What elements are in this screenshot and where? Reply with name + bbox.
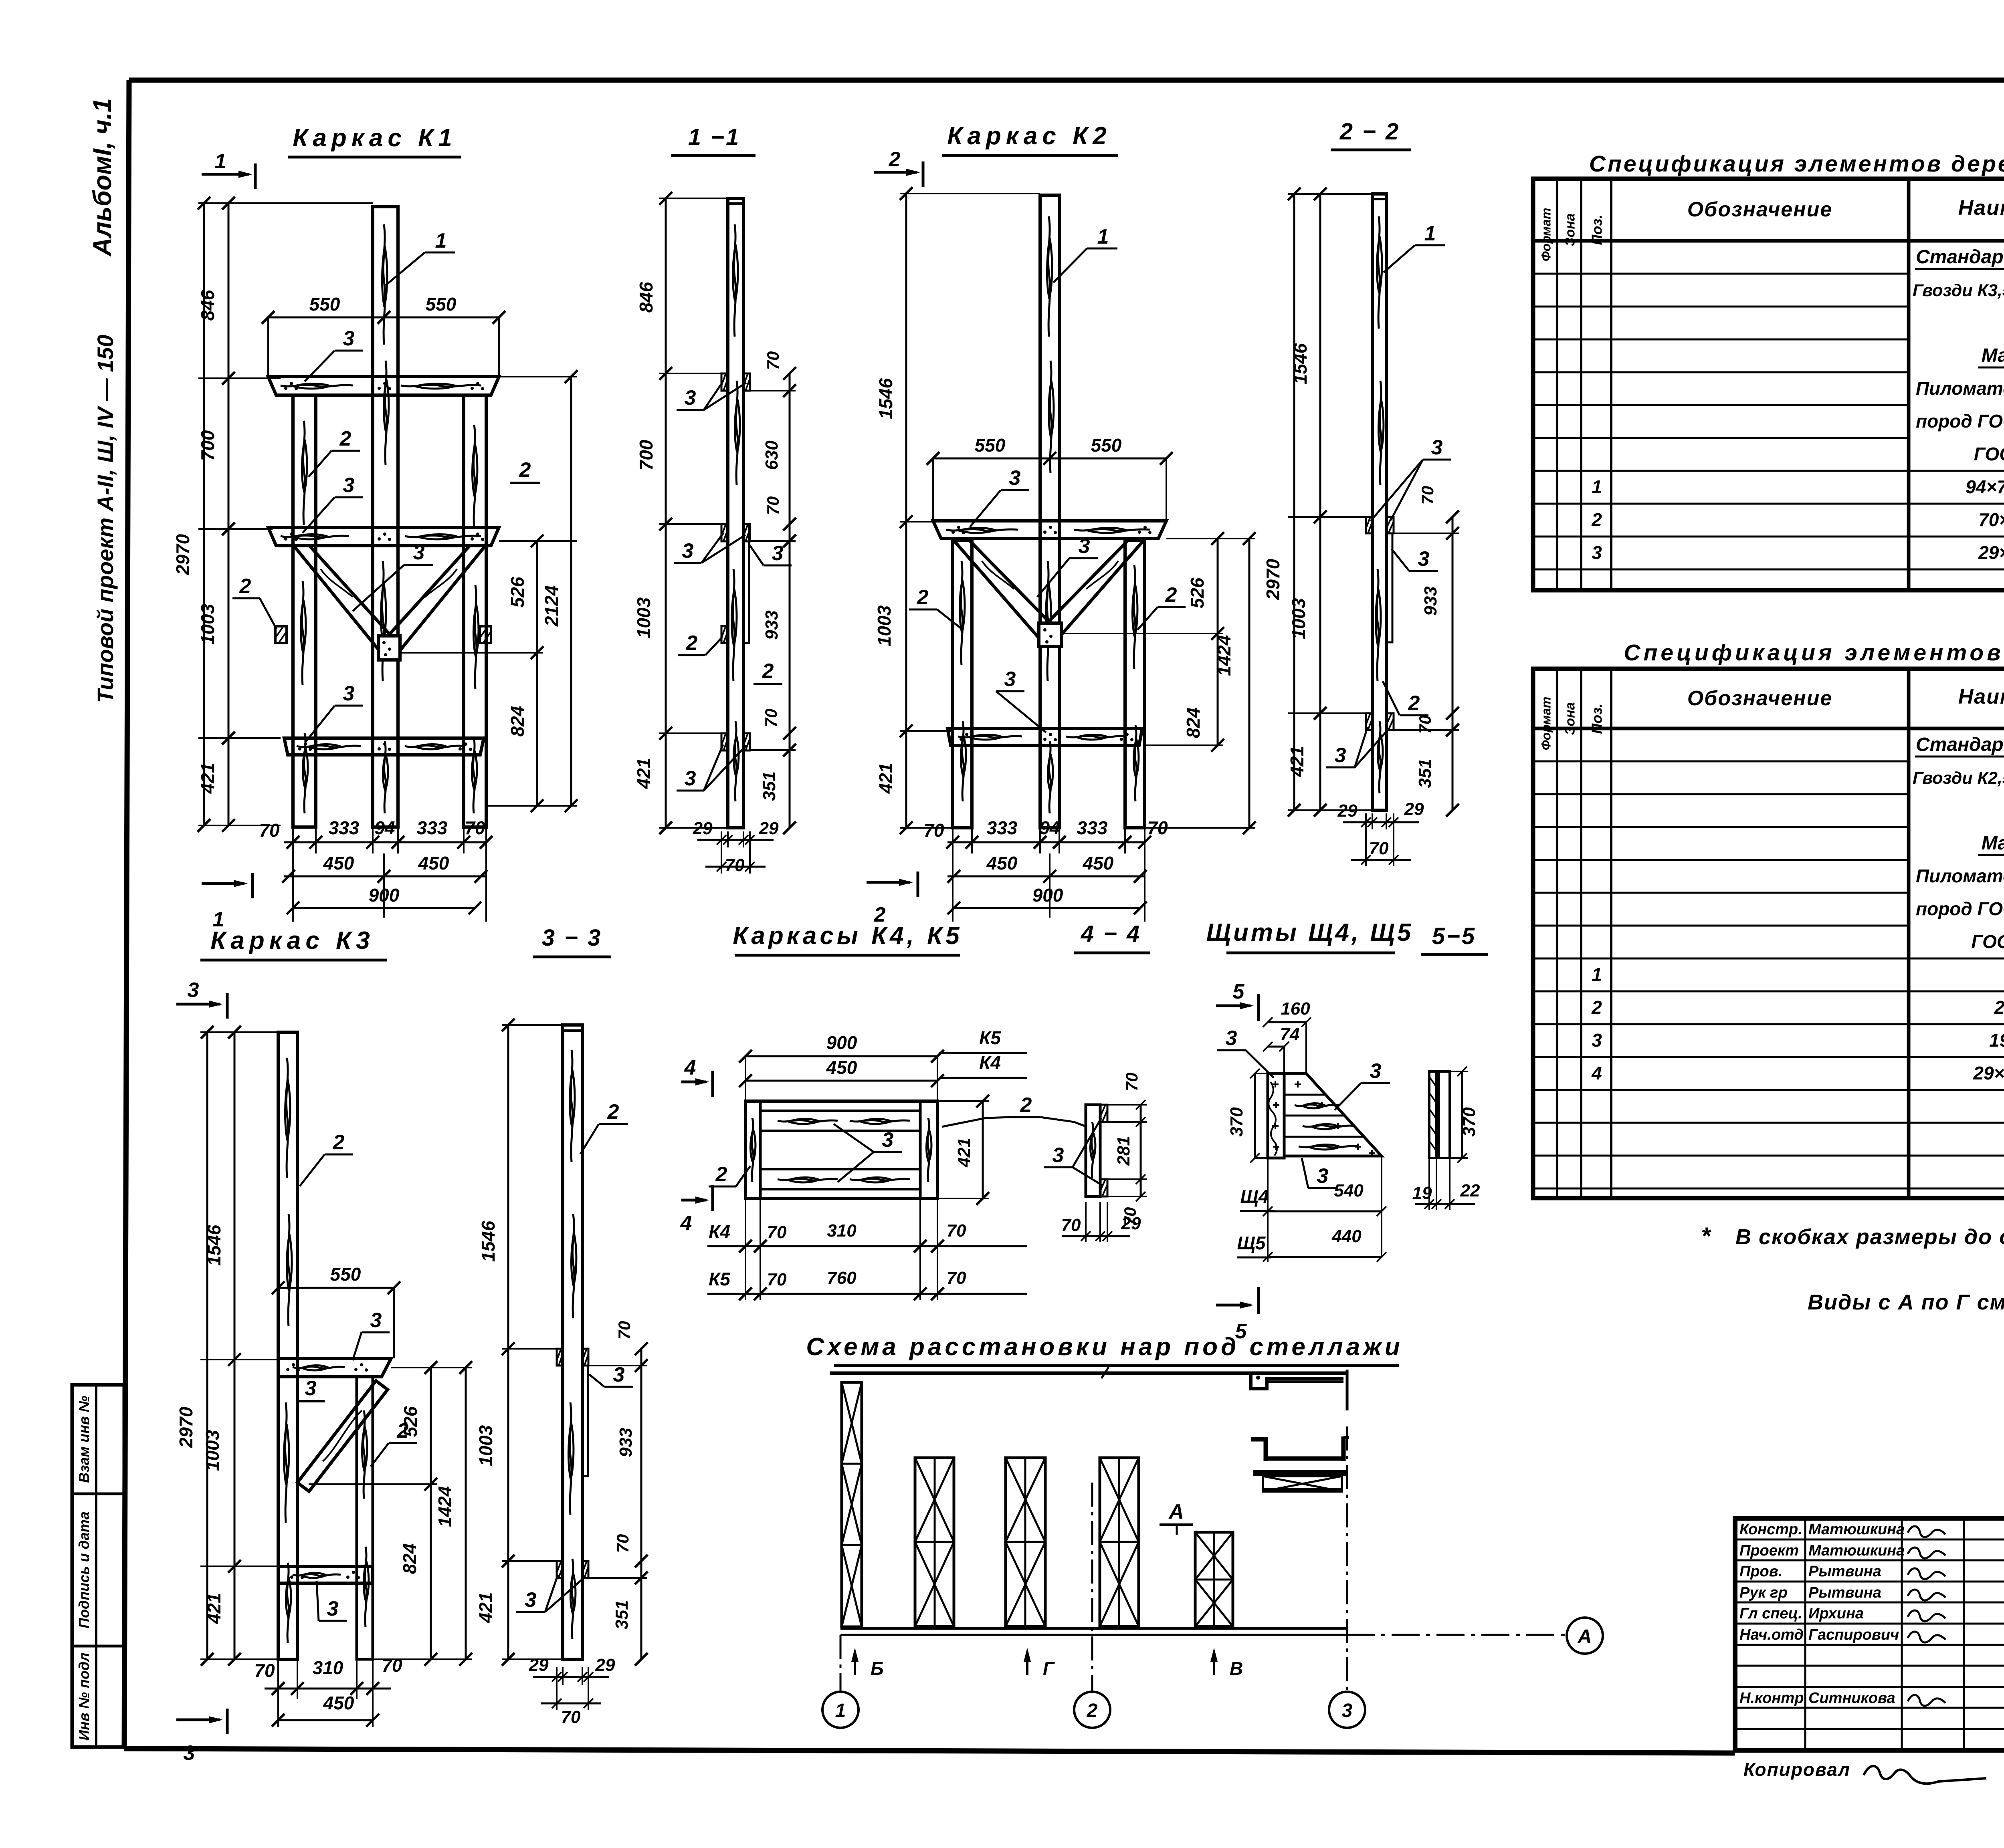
K3 leader 3 (bottom bar) xyxy=(317,1581,347,1621)
K2 bottom dims row3 900 xyxy=(947,885,1147,914)
K3 right rail (2) xyxy=(357,1377,373,1659)
svg-text:540: 540 xyxy=(1334,1181,1364,1200)
schema axis A line xyxy=(1347,1618,1603,1654)
svg-text:3: 3 xyxy=(685,767,696,790)
K1 bottom crossbar (3) xyxy=(284,738,484,755)
K1 dim line segments 846/700/1003/421 xyxy=(197,197,235,832)
svg-text:70: 70 xyxy=(947,1221,966,1241)
schema right nary bar xyxy=(1253,1470,1346,1476)
svg-text:3: 3 xyxy=(1004,668,1016,691)
K3 right dim 526/824 xyxy=(399,1361,437,1666)
K2 V-brace right board (3) xyxy=(1039,540,1144,644)
svg-text:Зона: Зона xyxy=(1563,702,1578,735)
K2 section marker top xyxy=(874,148,923,187)
svg-text:421: 421 xyxy=(633,758,654,789)
svg-text:94: 94 xyxy=(374,817,395,838)
table frame xyxy=(1533,179,2004,590)
svg-text:900: 900 xyxy=(826,1032,857,1053)
svg-text:760: 760 xyxy=(827,1268,857,1288)
svg-text:3: 3 xyxy=(1226,1027,1237,1050)
K3 bottom dims row1 70/310/70 xyxy=(254,1655,402,1727)
schema right wall axis-3 top xyxy=(1346,1370,1349,1410)
1-1 leader 3 bottom xyxy=(677,744,746,791)
svg-text:1: 1 xyxy=(1424,222,1436,245)
Shch leader 3 bottom xyxy=(1302,1158,1337,1188)
svg-text:333: 333 xyxy=(417,817,448,838)
K1 right extension lines xyxy=(401,377,577,806)
svg-text:Формат: Формат xyxy=(1539,208,1554,262)
4-4 bottom dims 70 29 xyxy=(1061,1202,1141,1242)
table content xyxy=(1591,246,2004,563)
K1 V-brace center block xyxy=(378,636,400,660)
kopiroval xyxy=(1743,1759,1986,1783)
svg-text:351: 351 xyxy=(1415,759,1435,788)
svg-text:Спецификация элементов деревя: Спецификация элементов деревянных щитов xyxy=(1624,640,2004,666)
Shch dim 74 xyxy=(1263,1025,1299,1073)
K3 post (2) xyxy=(278,1032,297,1659)
K4K5 left post xyxy=(745,1101,760,1198)
K2 leader label 3 (top bar) xyxy=(970,466,1029,527)
4-4 cleat bottom xyxy=(1100,1179,1107,1196)
K1 V-brace right board (3) xyxy=(380,546,485,656)
title: Karkas K3 xyxy=(200,927,387,960)
svg-text:Каркас К3: Каркас К3 xyxy=(210,927,374,954)
K3 leader 2 (post) xyxy=(300,1131,353,1186)
svg-text:2: 2 xyxy=(1408,692,1420,715)
K2 V-brace left board (3) xyxy=(954,540,1059,644)
svg-text:1546: 1546 xyxy=(1290,343,1311,384)
title: 2-2 xyxy=(1331,119,1411,150)
svg-text:630: 630 xyxy=(762,440,782,470)
K2 leader label 2 (right post) xyxy=(1137,583,1186,630)
svg-text:1003: 1003 xyxy=(202,1430,223,1471)
svg-text:70: 70 xyxy=(1369,839,1389,858)
svg-text:824: 824 xyxy=(399,1543,420,1574)
svg-text:К5: К5 xyxy=(979,1027,1001,1048)
svg-text:3: 3 xyxy=(188,978,199,1002)
Shch leader 3 right xyxy=(1335,1059,1390,1110)
svg-text:3: 3 xyxy=(1317,1164,1329,1188)
K3 leader 3 (top bar) xyxy=(353,1309,390,1360)
svg-text:2124: 2124 xyxy=(541,585,562,627)
K1 right dim 526/824 xyxy=(507,535,543,812)
svg-text:2970: 2970 xyxy=(176,1406,196,1448)
svg-text:70: 70 xyxy=(764,351,782,370)
schema arrow G xyxy=(1024,1648,1055,1679)
svg-text:700: 700 xyxy=(197,430,218,461)
svg-text:3 − 3: 3 − 3 xyxy=(542,925,602,951)
K3 section marker top xyxy=(176,978,227,1019)
K2 dim line 1546/1003/421 xyxy=(874,187,1040,834)
svg-text:Пров.: Пров. xyxy=(1739,1563,1782,1580)
schema right nary X-rect xyxy=(1263,1476,1342,1491)
svg-text:Матюшкина: Матюшкина xyxy=(1808,1521,1905,1538)
svg-text:70: 70 xyxy=(764,496,782,515)
table headers xyxy=(1539,189,2004,261)
svg-text:К5: К5 xyxy=(709,1269,731,1289)
svg-text:К4: К4 xyxy=(979,1052,1001,1073)
K2 bottom crossbar (3) xyxy=(947,728,1142,745)
svg-text:3: 3 xyxy=(772,542,784,565)
K2 V-brace center block xyxy=(1039,623,1061,646)
5-5 strips xyxy=(1429,1071,1450,1158)
svg-text:2: 2 xyxy=(686,631,698,655)
svg-text:421: 421 xyxy=(954,1138,974,1167)
3-3 dims 1546/1003/421 xyxy=(475,1019,563,1666)
K4K5 frame outline xyxy=(745,1101,937,1198)
svg-text:*: * xyxy=(1701,1223,1711,1249)
svg-text:Щ5: Щ5 xyxy=(1237,1233,1266,1253)
K2 bottom dims row2 450/450 xyxy=(947,853,1147,918)
svg-text:Материалы: Материалы xyxy=(1982,833,2004,854)
svg-text:2: 2 xyxy=(889,148,901,171)
1-1 leader 3 mid pair xyxy=(674,533,745,563)
3-3 cleats bottom xyxy=(557,1561,588,1578)
svg-text:29×70/ 32×75/*: 29×70/ 32×75/* xyxy=(1978,542,2004,563)
svg-text:421: 421 xyxy=(475,1592,496,1624)
svg-text:1424: 1424 xyxy=(434,1486,455,1527)
svg-text:70: 70 xyxy=(259,820,280,841)
schema nary rect 2 xyxy=(915,1458,954,1626)
svg-text:3: 3 xyxy=(370,1309,382,1332)
schema title xyxy=(806,1333,1403,1366)
svg-text:Нач.отд: Нач.отд xyxy=(1739,1626,1804,1643)
svg-text:Поз.: Поз. xyxy=(1589,214,1605,245)
svg-text:1 −1: 1 −1 xyxy=(688,124,741,150)
svg-text:3: 3 xyxy=(343,682,355,705)
svg-text:Каркас К2: Каркас К2 xyxy=(947,122,1111,150)
svg-text:70: 70 xyxy=(1416,715,1434,734)
K1 leader label 3 (top bar) xyxy=(305,327,363,381)
svg-text:70: 70 xyxy=(254,1660,275,1681)
K4K5 dim 450 / K4 xyxy=(739,1052,1027,1101)
1-1 ref 2 underlined xyxy=(754,660,782,684)
title block frame xyxy=(1735,1518,2004,1750)
svg-text:Схема расстановки нар под сте: Схема расстановки нар под стеллажи xyxy=(806,1333,1403,1361)
svg-text:440: 440 xyxy=(1331,1227,1362,1246)
svg-text:3: 3 xyxy=(1592,542,1602,563)
svg-text:Рытвина: Рытвина xyxy=(1808,1563,1881,1580)
Shch row Shch4 540 xyxy=(1240,1156,1386,1262)
svg-text:3: 3 xyxy=(685,386,696,410)
svg-text:Матюшкина: Матюшкина xyxy=(1808,1542,1905,1559)
K3 right ext lines xyxy=(309,1368,472,1659)
svg-text:29: 29 xyxy=(1121,1214,1141,1233)
svg-text:Копировал: Копировал xyxy=(1743,1759,1850,1780)
svg-text:900: 900 xyxy=(1032,885,1063,906)
K2 leader label 1 xyxy=(1053,225,1117,282)
svg-text:Гл спец.: Гл спец. xyxy=(1739,1605,1802,1622)
svg-text:2: 2 xyxy=(1020,1093,1032,1117)
svg-text:ГОСТ 24454-80: ГОСТ 24454-80 xyxy=(1974,444,2004,464)
K2 central post (1) xyxy=(1040,195,1059,828)
K2 left post (2) xyxy=(953,539,972,828)
svg-text:Типовой проект А-II, Ш, IV —: Типовой проект А-II, Ш, IV — 150 xyxy=(93,335,118,703)
svg-text:70: 70 xyxy=(465,817,485,838)
svg-text:Каркасы К4, К5: Каркасы К4, К5 xyxy=(733,922,962,950)
svg-text:Н.контр: Н.контр xyxy=(1739,1690,1804,1707)
svg-text:29: 29 xyxy=(529,1655,549,1675)
svg-text:526: 526 xyxy=(1187,577,1208,608)
schema nary rect 4 xyxy=(1100,1458,1139,1626)
svg-text:450: 450 xyxy=(1083,853,1114,874)
K4K5 right post xyxy=(920,1101,937,1198)
K1 dim 550+550 xyxy=(262,294,505,377)
svg-text:4 − 4: 4 − 4 xyxy=(1081,921,1141,947)
svg-text:1003: 1003 xyxy=(874,605,895,646)
svg-text:2: 2 xyxy=(917,586,929,609)
schema axis 3 xyxy=(1329,1426,1365,1728)
svg-text:70: 70 xyxy=(382,1655,402,1676)
K2 right extension lines xyxy=(1061,539,1255,828)
schema nary rect 5 (small) xyxy=(1195,1532,1233,1626)
K4K5 bottom dim K4 row xyxy=(707,1221,1027,1253)
svg-text:70: 70 xyxy=(767,1223,787,1242)
svg-text:Наименование: Наименование xyxy=(1958,196,2004,220)
svg-text:В скобках размеры до острож: В скобках размеры до острожки xyxy=(1735,1225,2004,1249)
K1 central post (1) xyxy=(373,207,398,827)
svg-text:29: 29 xyxy=(759,819,779,838)
svg-text:933: 933 xyxy=(616,1428,636,1457)
1-1 board (3) xyxy=(743,524,749,643)
svg-text:1: 1 xyxy=(215,150,226,173)
Shch dim 370 xyxy=(1227,1069,1268,1163)
svg-text:Подпись и дата: Подпись и дата xyxy=(76,1511,92,1628)
svg-text:Ситникова: Ситникова xyxy=(1808,1690,1895,1707)
svg-text:Рук гр: Рук гр xyxy=(1739,1584,1788,1601)
svg-text:550: 550 xyxy=(1091,435,1122,456)
svg-text:421: 421 xyxy=(1287,746,1307,777)
K3 right dim 1424 xyxy=(434,1361,472,1666)
svg-text:900: 900 xyxy=(369,885,400,906)
svg-text:3: 3 xyxy=(1053,1144,1064,1167)
svg-text:70: 70 xyxy=(1061,1215,1081,1235)
svg-text:70: 70 xyxy=(767,1270,787,1289)
svg-text:Стандартные изделия: Стандартные изделия xyxy=(1916,734,2004,755)
svg-text:1546: 1546 xyxy=(875,378,896,419)
K2 right dim 526/824 xyxy=(1183,532,1224,752)
svg-text:333: 333 xyxy=(1077,817,1108,838)
K2 bottom dims row1 xyxy=(923,817,1168,922)
svg-text:70: 70 xyxy=(947,1268,966,1288)
svg-text:70: 70 xyxy=(561,1707,581,1727)
schema nary rect 1 (tall left) xyxy=(842,1382,862,1627)
svg-text:Виды с А по Г см. на листе 13: Виды с А по Г см. на листе 13 xyxy=(1808,1290,2004,1314)
svg-text:5: 5 xyxy=(1233,980,1245,1003)
K2 right post (2) xyxy=(1125,539,1145,828)
svg-text:70: 70 xyxy=(762,709,780,728)
K3 bottom dims row2 450 xyxy=(272,1693,379,1727)
svg-text:74: 74 xyxy=(1280,1025,1300,1044)
K1 bottom dims row2 450/450 xyxy=(282,853,487,918)
svg-text:Пиломатериалы хвойных: Пиломатериалы хвойных xyxy=(1916,378,2004,399)
1-1 cleats bottom xyxy=(721,733,750,750)
svg-text:700: 700 xyxy=(636,440,657,470)
svg-text:2: 2 xyxy=(397,1419,409,1442)
svg-text:310: 310 xyxy=(313,1657,343,1678)
svg-text:1003: 1003 xyxy=(475,1425,496,1466)
svg-text:пород ГОСТ 84 86- 66 **: пород ГОСТ 84 86- 66 ** xyxy=(1916,898,2004,919)
svg-text:Проект: Проект xyxy=(1739,1542,1799,1559)
svg-text:3: 3 xyxy=(343,327,355,350)
svg-text:Щ4: Щ4 xyxy=(1240,1186,1269,1207)
svg-text:550: 550 xyxy=(309,294,340,315)
svg-text:1: 1 xyxy=(1592,964,1602,985)
svg-text:29× 29/ 32× 32/*: 29× 29/ 32× 32/* xyxy=(1973,1063,2004,1083)
1-1 leader 3 top xyxy=(677,383,746,410)
schema arrow B xyxy=(851,1648,884,1679)
K2 leader label 2 (left post) xyxy=(909,586,962,629)
svg-text:824: 824 xyxy=(507,706,528,737)
table frame xyxy=(1533,669,2004,1198)
title: 1-1 xyxy=(671,124,756,155)
1-1 leader 3 board xyxy=(749,542,792,565)
svg-text:3: 3 xyxy=(682,539,694,563)
svg-text:Инв № подл: Инв № подл xyxy=(76,1652,92,1740)
svg-text:3: 3 xyxy=(1342,1700,1353,1721)
K1 middle crossbar (3) xyxy=(268,527,499,546)
3-3 board (3) xyxy=(582,1366,588,1476)
K3 dim 550 xyxy=(272,1264,400,1358)
1-1 leader 2 block xyxy=(678,631,722,655)
schema axis 1 xyxy=(822,1635,859,1728)
svg-text:1: 1 xyxy=(1592,476,1602,497)
svg-text:2: 2 xyxy=(1165,583,1177,607)
K1 section marker top xyxy=(202,150,255,189)
svg-text:846: 846 xyxy=(197,290,218,321)
svg-text:29: 29 xyxy=(1404,799,1424,819)
svg-text:1546: 1546 xyxy=(478,1221,499,1262)
svg-text:450: 450 xyxy=(418,853,449,874)
svg-text:Ирхина: Ирхина xyxy=(1808,1605,1864,1622)
svg-text:2: 2 xyxy=(715,1163,727,1186)
svg-text:310: 310 xyxy=(827,1221,857,1241)
svg-text:370: 370 xyxy=(1459,1107,1479,1137)
K3 bottom crossbar (3) xyxy=(278,1566,373,1583)
svg-text:А: А xyxy=(1578,1626,1592,1647)
K1 side block right (2) xyxy=(480,626,491,643)
title: Karkasy K4 K5 xyxy=(733,922,962,955)
svg-text:94: 94 xyxy=(1039,817,1060,838)
svg-text:3: 3 xyxy=(1418,547,1430,571)
svg-text:3: 3 xyxy=(1431,436,1443,459)
svg-text:421: 421 xyxy=(204,1593,224,1624)
svg-text:Взам инв №: Взам инв № xyxy=(76,1396,92,1483)
K4K5 leader 2 left xyxy=(709,1163,750,1186)
K1 extension lines xyxy=(198,203,373,825)
svg-text:1003: 1003 xyxy=(1288,598,1309,639)
svg-text:351: 351 xyxy=(760,771,779,801)
K1 right dim 2124 xyxy=(541,370,578,812)
svg-text:Гаспирович: Гаспирович xyxy=(1808,1626,1899,1643)
1-1 bottom dims 29/29/70 xyxy=(693,819,779,875)
svg-text:2970: 2970 xyxy=(1263,559,1283,600)
svg-text:К4: К4 xyxy=(709,1221,730,1242)
svg-text:1: 1 xyxy=(435,229,447,252)
svg-text:2: 2 xyxy=(519,458,531,482)
svg-text:550: 550 xyxy=(975,435,1006,456)
3-3 leader 3 (board) xyxy=(589,1363,633,1387)
K1 side block left (2) xyxy=(275,626,287,643)
svg-text:550: 550 xyxy=(330,1264,361,1285)
svg-text:2: 2 xyxy=(1591,997,1602,1018)
svg-text:846: 846 xyxy=(636,282,657,313)
K1 leader label 2 (side block) xyxy=(232,575,277,629)
4-4 cleat top xyxy=(1100,1105,1107,1122)
2-2 right dims 70/933/70/351 xyxy=(1394,486,1459,817)
svg-text:2 − 2: 2 − 2 xyxy=(1339,119,1400,145)
svg-text:Зона: Зона xyxy=(1563,213,1578,246)
2-2 leader 3 (bottom cleats) xyxy=(1326,727,1389,767)
K3 leader 2 (rail) xyxy=(371,1419,417,1467)
K4K5 dim 900 / K5 xyxy=(739,1027,1027,1063)
svg-text:Каркас К1: Каркас К1 xyxy=(293,124,457,152)
schema right room walls xyxy=(1251,1436,1349,1461)
svg-text:2: 2 xyxy=(333,1131,345,1154)
svg-text:1546: 1546 xyxy=(204,1225,224,1266)
svg-text:1: 1 xyxy=(835,1700,846,1721)
K1 top crossbar (3) xyxy=(268,377,499,395)
K4K5 dim 421 xyxy=(937,1095,989,1205)
svg-text:3: 3 xyxy=(1592,1030,1602,1051)
svg-text:933: 933 xyxy=(762,610,782,640)
svg-text:Пиломатериалы хвойных: Пиломатериалы хвойных xyxy=(1916,865,2004,886)
schema view label A xyxy=(1160,1500,1193,1535)
2-2 leader 3 (board) xyxy=(1392,547,1438,571)
K1 leader label 1 xyxy=(386,229,455,285)
K4K5 bottom dim K5 row xyxy=(707,1198,1027,1300)
3-3 post xyxy=(563,1025,582,1659)
4-4 post xyxy=(1086,1105,1100,1196)
svg-text:3: 3 xyxy=(1370,1059,1382,1083)
svg-text:26, 29/ 32/*: 26, 29/ 32/* xyxy=(1994,997,2004,1018)
svg-text:Обозначение: Обозначение xyxy=(1687,687,1833,710)
svg-text:2: 2 xyxy=(339,427,352,450)
svg-text:70: 70 xyxy=(1122,1073,1141,1091)
svg-text:3: 3 xyxy=(613,1363,625,1386)
K1 right post (2) xyxy=(464,395,486,827)
svg-text:70: 70 xyxy=(615,1321,634,1340)
svg-text:Спецификация элементов дерев: Спецификация элементов деревянных каркас… xyxy=(1589,151,2004,177)
K2 top crossbar (3) xyxy=(933,521,1166,539)
2-2 cleats mid xyxy=(1366,517,1394,533)
svg-text:450: 450 xyxy=(826,1057,857,1078)
K1 leader label 2 (left post) xyxy=(309,427,360,477)
2-2 board (3) xyxy=(1386,533,1392,642)
svg-text:421: 421 xyxy=(197,763,218,794)
svg-text:29: 29 xyxy=(693,819,713,838)
K1 dim line 2970 xyxy=(172,197,210,832)
2-2 dim line 1546/1003/421 xyxy=(1287,188,1372,817)
K2 section marker bottom xyxy=(867,872,918,926)
title block staff names xyxy=(1739,1521,1905,1707)
svg-text:3: 3 xyxy=(413,541,425,564)
svg-text:Формат: Формат xyxy=(1539,697,1554,750)
svg-text:3: 3 xyxy=(1009,466,1021,490)
title: 4-4 xyxy=(1074,921,1150,953)
svg-text:370: 370 xyxy=(1227,1107,1246,1137)
K1 bottom dims row1 70/333/94/333/70 xyxy=(259,817,493,922)
schema top wall xyxy=(830,1367,1348,1378)
svg-text:450: 450 xyxy=(323,853,354,874)
K1 V-brace left board (3) xyxy=(294,546,399,656)
svg-text:4: 4 xyxy=(680,1212,692,1235)
svg-text:Констр.: Констр. xyxy=(1739,1521,1802,1538)
Shch row Shch5 440 xyxy=(1237,1227,1386,1262)
svg-text:19, 2 2 / 25/*: 19, 2 2 / 25/* xyxy=(1989,1030,2004,1051)
3-3 leader 3 (bottom cleats) xyxy=(516,1575,585,1612)
K3 dim 2970 xyxy=(176,1026,214,1666)
